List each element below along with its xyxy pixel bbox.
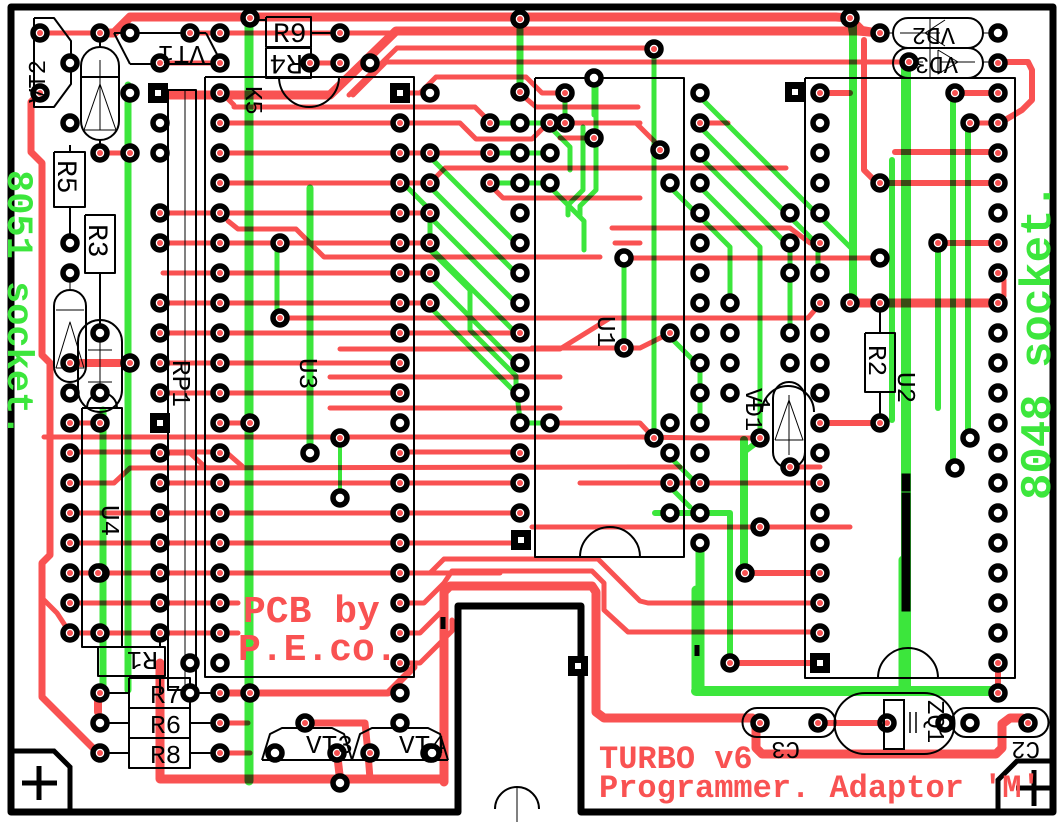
svg-text:PCB by: PCB by [243, 591, 380, 634]
svg-text:U1: U1 [590, 316, 620, 347]
svg-text:R2: R2 [861, 345, 891, 376]
svg-text:VD2: VD2 [912, 20, 955, 47]
svg-text:U4: U4 [94, 505, 124, 536]
svg-text:R3: R3 [80, 224, 111, 258]
svg-text:P.E.co.: P.E.co. [238, 629, 398, 672]
svg-text:Programmer. Adaptor 'M': Programmer. Adaptor 'M' [599, 770, 1041, 807]
svg-text:VT2: VT2 [26, 60, 53, 103]
svg-text:R1: R1 [127, 644, 158, 674]
svg-text:R4: R4 [269, 46, 303, 77]
svg-text:R6: R6 [150, 711, 181, 741]
svg-text:VT3: VT3 [306, 731, 353, 761]
svg-text:8051 socket.: 8051 socket. [0, 170, 38, 436]
svg-text:U2: U2 [890, 372, 920, 403]
svg-text:VT4: VT4 [399, 731, 446, 761]
svg-text:U3: U3 [292, 358, 322, 389]
svg-text:ZQ1: ZQ1 [920, 700, 947, 743]
svg-text:VT1: VT1 [158, 38, 205, 68]
svg-text:R7: R7 [150, 681, 181, 711]
svg-text:R8: R8 [150, 741, 181, 771]
svg-text:K5: K5 [238, 86, 265, 115]
svg-text:1: 1 [745, 396, 775, 412]
svg-text:C2: C2 [1011, 734, 1040, 761]
svg-text:8048 socket.: 8048 socket. [1014, 183, 1062, 500]
svg-text:R5: R5 [49, 160, 80, 194]
svg-text:RP1: RP1 [165, 360, 195, 407]
svg-text:C3: C3 [771, 734, 800, 761]
svg-text:VD3: VD3 [915, 49, 958, 76]
